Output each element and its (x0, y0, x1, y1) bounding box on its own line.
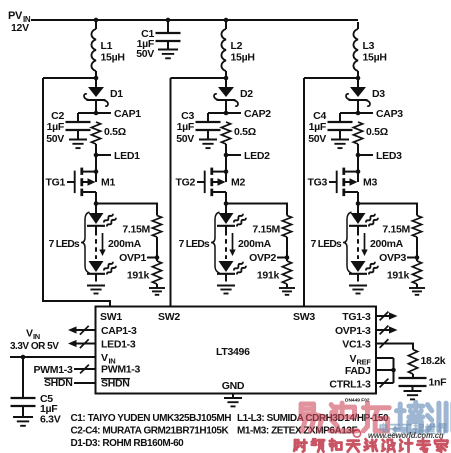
svg-text:50V: 50V (308, 133, 326, 145)
diode D3 (346, 78, 370, 113)
wire drain to LED string channel 3 (357, 204, 359, 214)
node VIN label (10, 328, 59, 353)
svg-text:15µH: 15µH (101, 52, 125, 64)
value label L2 (231, 40, 255, 64)
svg-text:OVP1-3: OVP1-3 (335, 325, 371, 337)
value label D3 (372, 88, 385, 100)
svg-text:15µH: 15µH (231, 52, 255, 64)
svg-text:C2-C4: MURATA GRM21BR71H105K: C2-C4: MURATA GRM21BR71H105K (71, 426, 230, 437)
wire LED1-3 bus (68, 339, 96, 348)
svg-text:191k: 191k (387, 270, 410, 282)
label 7 LEDs channel 2 (179, 239, 210, 250)
svg-text:TG1: TG1 (45, 177, 65, 189)
svg-text:1µF: 1µF (309, 121, 327, 133)
wire PWM1-3 (33, 364, 95, 376)
note M1-M3 part (237, 426, 357, 437)
pin VC1-3 (342, 339, 371, 351)
resistor 18.2k (408, 350, 417, 379)
value label 191k channel 3 (387, 270, 410, 282)
ground GND pin (224, 394, 242, 407)
resistor 191k channel 2 (282, 258, 291, 289)
ground 191k channel 1 (149, 288, 165, 295)
svg-text:VC1-3: VC1-3 (342, 339, 371, 351)
svg-text:50V: 50V (176, 133, 194, 145)
node OVP1 (119, 252, 159, 264)
svg-text:TG2: TG2 (175, 177, 195, 189)
capacitor C1 (156, 20, 181, 50)
ground LED string channel 1 (87, 286, 105, 294)
svg-text:7.15M: 7.15M (382, 224, 410, 236)
wire dashed LED string channel 2 (225, 231, 227, 259)
svg-text:L3: L3 (363, 40, 375, 52)
node LED2 (224, 150, 270, 162)
node FADJ junction (391, 368, 396, 373)
svg-text:1nF: 1nF (429, 377, 448, 389)
brace 7 LEDs channel 1 (81, 212, 90, 273)
note C1 part (71, 413, 232, 424)
pin VREF (350, 353, 372, 366)
value label 191k channel 1 (127, 270, 150, 282)
resistor 7.15M channel 2 (282, 216, 291, 258)
svg-text:V: V (26, 328, 33, 340)
svg-text:LT3496: LT3496 (216, 346, 250, 358)
transistor M2 (197, 168, 226, 204)
diode D1 (84, 78, 108, 113)
inductor L1 (91, 22, 96, 78)
inductor L2 (221, 22, 226, 78)
node SW2 junction (224, 76, 229, 81)
ground 191k channel 2 (279, 288, 295, 295)
svg-text:C1: TAIYO YUDEN UMK325BJ105MH: C1: TAIYO YUDEN UMK325BJ105MH (71, 413, 232, 424)
pin PWM1-3 chip (101, 364, 140, 376)
capacitor C4 (328, 113, 359, 140)
wire CAP1-3 bus (68, 326, 96, 335)
wire LED1 to M1 (95, 155, 97, 172)
svg-text:0.5Ω: 0.5Ω (104, 126, 126, 138)
transistor M3 (329, 168, 358, 204)
wire LED2 to M2 (225, 155, 227, 172)
label 7 LEDs channel 1 (49, 239, 80, 250)
svg-text:L1: L1 (101, 40, 113, 52)
node PVIN junction L2 (224, 18, 229, 23)
svg-text:www.eeworld.com.cn: www.eeworld.com.cn (368, 431, 444, 440)
note C2-C4 part (71, 426, 230, 437)
wire drain to OVP divider channel 3 (358, 204, 417, 216)
node M3 drain junction (356, 201, 361, 206)
wire CTRL1-3 (376, 379, 394, 388)
ground C3 (199, 140, 217, 149)
wire drain to LED string channel 2 (225, 204, 227, 214)
node LED3 (356, 150, 402, 162)
brace 7 LEDs channel 3 (343, 212, 352, 273)
resistor 191k channel 3 (412, 258, 421, 289)
node VIN junction C5 (21, 355, 26, 360)
ground C1 (158, 50, 178, 59)
svg-text:TG3: TG3 (307, 177, 327, 189)
svg-text:CAP2: CAP2 (244, 108, 271, 120)
svg-text:D1: D1 (110, 88, 123, 100)
node M3 source junction (356, 169, 361, 174)
node PVIN label (8, 10, 31, 34)
wire PVIN rail (31, 19, 358, 21)
svg-text:M3: M3 (363, 177, 377, 189)
svg-text:L2: L2 (231, 40, 243, 52)
ground C5 (13, 417, 33, 426)
svg-text:OVP1: OVP1 (119, 252, 146, 264)
label TG3 gate (307, 177, 327, 189)
value label 18.2k (421, 355, 446, 367)
pin CAP1-3 (101, 325, 137, 337)
svg-text:3.3V OR 5V: 3.3V OR 5V (10, 341, 59, 352)
resistor 0.5ohm channel 1 (91, 122, 100, 155)
value label L1 (101, 40, 125, 64)
LED string top LED channel 2 (217, 213, 246, 231)
transistor M1 (67, 168, 96, 204)
resistor 0.5ohm channel 2 (221, 122, 230, 155)
node PVIN junction C1 (166, 18, 171, 23)
pin FADJ (345, 365, 371, 377)
LED string bottom LED channel 3 (349, 261, 378, 282)
svg-text:D3: D3 (372, 88, 385, 100)
pin LED1-3 (101, 339, 136, 351)
value label D1 (110, 88, 123, 100)
svg-text:TG1-3: TG1-3 (342, 311, 371, 323)
value label 191k channel 2 (257, 270, 280, 282)
pin SW1 (100, 311, 122, 323)
node PVIN junction L1 (94, 18, 99, 23)
svg-text:OVP2: OVP2 (249, 252, 276, 264)
node CAP2 (224, 108, 272, 120)
ground C4 (331, 140, 349, 149)
svg-text:7 LEDs: 7 LEDs (179, 239, 210, 250)
value label 7.15M channel 1 (122, 224, 150, 236)
pin CTRL1-3 (329, 379, 371, 391)
pin TG1-3 (342, 311, 371, 323)
node M1 source junction (94, 169, 99, 174)
value label 200mA channel 2 (238, 238, 272, 250)
svg-text:15µH: 15µH (363, 52, 387, 64)
svg-text:CAP1: CAP1 (114, 108, 141, 120)
wire drain to LED string channel 1 (95, 204, 97, 214)
node M1 drain junction (94, 201, 99, 206)
node M2 source junction (224, 169, 229, 174)
node LED1 (94, 150, 140, 162)
svg-text:V: V (101, 352, 108, 364)
value label L3 (363, 40, 387, 64)
svg-text:SW2: SW2 (158, 311, 180, 323)
svg-text:7 LEDs: 7 LEDs (49, 239, 80, 250)
wire SW3 to chip (304, 78, 358, 307)
op-amp U1 LT3496 outline (96, 307, 377, 394)
node CAP1 (94, 108, 142, 120)
ground C2 (69, 140, 87, 149)
ground 1nF (404, 391, 422, 399)
value label LT3496 (216, 346, 250, 358)
capacitor C2 (66, 113, 97, 140)
svg-text:7.15M: 7.15M (122, 224, 150, 236)
node OVP3 (379, 252, 419, 264)
inductor L3 (353, 22, 358, 78)
svg-text:IN: IN (33, 332, 40, 341)
svg-text:GND: GND (222, 380, 245, 392)
pin VIN chip (101, 352, 115, 365)
wire SHDN (44, 377, 96, 389)
node SW3 junction (356, 76, 361, 81)
svg-text:SW1: SW1 (100, 311, 122, 323)
resistor 191k channel 1 (152, 258, 161, 289)
wire dashed LED string channel 3 (357, 231, 359, 259)
label 7 LEDs channel 3 (311, 239, 342, 250)
wire VREF (376, 358, 394, 383)
svg-text:LED3: LED3 (376, 150, 402, 162)
svg-text:PWM1-3: PWM1-3 (101, 364, 140, 376)
svg-text:M2: M2 (231, 177, 245, 189)
wire drain to OVP divider channel 1 (96, 204, 157, 216)
value label C4 (308, 110, 327, 145)
svg-text:V: V (350, 353, 357, 365)
node M2 drain junction (224, 201, 229, 206)
watermark (294, 402, 451, 452)
node CAP3 (356, 108, 404, 120)
capacitor C3 (196, 113, 227, 140)
svg-text:200mA: 200mA (370, 238, 404, 250)
ground LED string channel 2 (217, 286, 235, 294)
ground 191k channel 3 (409, 288, 425, 295)
pin GND (222, 380, 245, 392)
value label 1nF (429, 377, 448, 389)
LED string bottom LED channel 2 (217, 261, 246, 282)
note D1-D3 part (71, 438, 185, 449)
svg-text:191k: 191k (127, 270, 150, 282)
svg-text:CAP1-3: CAP1-3 (101, 325, 137, 337)
svg-text:6.3V: 6.3V (40, 414, 61, 426)
pin SHDN chip (101, 378, 130, 390)
value label M3 (363, 177, 377, 189)
resistor 7.15M channel 3 (412, 216, 421, 258)
value label 0.5ohm channel 1 (104, 126, 126, 138)
svg-text:0.5Ω: 0.5Ω (366, 126, 388, 138)
value label 0.5ohm channel 3 (366, 126, 388, 138)
pin SW3 (293, 311, 315, 323)
svg-text:7 LEDs: 7 LEDs (311, 239, 342, 250)
value label C3 (176, 110, 195, 145)
current arrow 200mA channel 1 (99, 233, 105, 256)
node OVP2 (249, 252, 289, 264)
svg-text:OVP3: OVP3 (379, 252, 406, 264)
svg-text:FADJ: FADJ (345, 365, 371, 377)
svg-text:LED1-3: LED1-3 (101, 339, 136, 351)
svg-text:LED1: LED1 (114, 150, 140, 162)
LED string bottom LED channel 1 (87, 261, 116, 282)
wire SW2 to chip (171, 78, 227, 307)
svg-text:18.2k: 18.2k (421, 355, 446, 367)
svg-text:D1-D3: ROHM RB160M-60: D1-D3: ROHM RB160M-60 (71, 438, 185, 449)
label TG1 gate (45, 177, 65, 189)
svg-text:SW3: SW3 (293, 311, 315, 323)
wire LED3 to M3 (357, 155, 359, 172)
value label C2 (46, 110, 65, 145)
wire FADJ (376, 369, 394, 371)
svg-text:LED2: LED2 (244, 150, 270, 162)
LED string top LED channel 3 (349, 213, 378, 231)
svg-text:191k: 191k (257, 270, 280, 282)
note L1-L3 part (237, 413, 389, 424)
diode D2 (214, 78, 238, 113)
svg-text:7.15M: 7.15M (252, 224, 280, 236)
value label D2 (240, 88, 253, 100)
current arrow 200mA channel 2 (229, 233, 235, 256)
value label M1 (101, 177, 115, 189)
svg-text:1µF: 1µF (47, 121, 65, 133)
value label 7.15M channel 2 (252, 224, 280, 236)
capacitor C5 (11, 357, 36, 417)
value label 7.15M channel 3 (382, 224, 410, 236)
pin OVP1-3 (335, 325, 371, 337)
wire SW1 to chip (43, 78, 110, 307)
svg-text:PWM1-3: PWM1-3 (33, 364, 72, 376)
resistor 7.15M channel 1 (152, 216, 161, 258)
value label M2 (231, 177, 245, 189)
brace 7 LEDs channel 2 (211, 212, 220, 273)
current arrow 200mA channel 3 (361, 233, 367, 256)
svg-text:PV: PV (8, 10, 23, 22)
label DN449 F02 (345, 398, 370, 404)
svg-text:M1: M1 (101, 177, 115, 189)
svg-text:200mA: 200mA (108, 238, 142, 250)
svg-text:50V: 50V (46, 133, 64, 145)
value label C5 (40, 393, 61, 426)
svg-text:CAP3: CAP3 (376, 108, 403, 120)
svg-text:200mA: 200mA (238, 238, 272, 250)
wire VIN rail (10, 356, 96, 358)
resistor 0.5ohm channel 3 (353, 122, 362, 155)
value label C1 (136, 28, 155, 60)
capacitor 1nF (399, 378, 427, 391)
svg-text:12V: 12V (11, 22, 29, 34)
wire dashed LED string channel 1 (95, 231, 97, 259)
svg-text:50V: 50V (136, 48, 154, 60)
label TG2 gate (175, 177, 195, 189)
LED string top LED channel 1 (87, 213, 116, 231)
wire drain to OVP divider channel 2 (226, 204, 287, 216)
svg-text:1µF: 1µF (177, 121, 195, 133)
svg-text:0.5Ω: 0.5Ω (234, 126, 256, 138)
value label 200mA channel 3 (370, 238, 404, 250)
wire VC1-3 (376, 339, 413, 349)
wire OVP1-3 bus (376, 326, 398, 335)
pin SW2 (158, 311, 180, 323)
node SW1 junction (94, 76, 99, 81)
svg-text:CTRL1-3: CTRL1-3 (329, 379, 371, 391)
wire TG1-3 bus (376, 312, 398, 321)
svg-text:D2: D2 (240, 88, 253, 100)
value label 0.5ohm channel 2 (234, 126, 256, 138)
value label 200mA channel 1 (108, 238, 142, 250)
ground LED string channel 3 (349, 286, 367, 294)
